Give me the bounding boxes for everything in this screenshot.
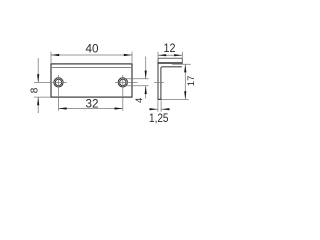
svg-text:40: 40 — [86, 44, 99, 56]
svg-text:17: 17 — [186, 76, 197, 87]
svg-text:4: 4 — [134, 98, 145, 103]
svg-text:1,25: 1,25 — [149, 113, 169, 125]
svg-text:12: 12 — [164, 43, 176, 55]
svg-text:32: 32 — [86, 99, 99, 111]
svg-text:8: 8 — [30, 87, 41, 93]
